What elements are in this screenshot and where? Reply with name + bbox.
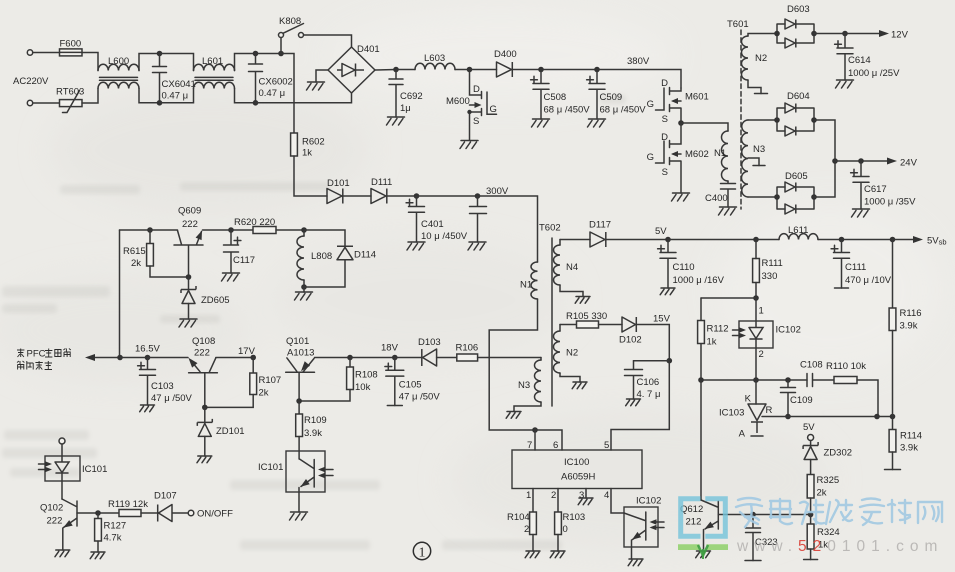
winding N2 T601	[742, 36, 749, 80]
svg-text:M601: M601	[685, 92, 709, 103]
ground at bridge	[307, 82, 325, 90]
capacitor C109	[781, 380, 796, 417]
arrow 24V	[887, 158, 897, 165]
resistor R620	[253, 227, 276, 234]
node C109 bottom	[785, 414, 791, 420]
wire	[756, 379, 788, 381]
optocoupler IC102 LED light arrows	[733, 330, 744, 336]
wire	[303, 287, 305, 292]
wire	[668, 239, 756, 241]
svg-text:C400: C400	[705, 193, 728, 204]
wire	[256, 53, 282, 55]
ground C508	[532, 119, 550, 127]
wire	[541, 69, 597, 71]
wire left rail	[119, 230, 121, 358]
capacitor C508	[533, 70, 549, 120]
wire	[315, 357, 351, 359]
svg-text:D400: D400	[494, 49, 517, 60]
winding N3 T601	[742, 120, 749, 197]
wire	[98, 512, 119, 514]
svg-text:L808: L808	[311, 251, 332, 262]
ground N4	[575, 297, 590, 304]
wire	[160, 89, 194, 103]
winding N2 T602	[554, 331, 561, 373]
svg-text:10 μ /450V: 10 μ /450V	[421, 231, 468, 242]
svg-text:R114: R114	[900, 431, 922, 442]
svg-text:R615: R615	[123, 246, 146, 257]
wire	[557, 535, 559, 552]
svg-text:D102: D102	[619, 335, 642, 346]
wire	[172, 512, 188, 514]
svg-text:Q108: Q108	[192, 336, 215, 347]
ground C401	[407, 242, 425, 250]
svg-text:R110 10k: R110 10k	[826, 361, 866, 372]
core L600	[100, 77, 138, 80]
svg-text:C508: C508	[544, 92, 567, 103]
transistor Q102	[62, 499, 77, 550]
wire	[437, 357, 457, 359]
shunt regulator IC103	[748, 404, 766, 433]
svg-text:CX6041: CX6041	[162, 79, 196, 90]
arrow Q101 emitter	[301, 361, 310, 371]
svg-text:N2: N2	[566, 348, 578, 359]
wire	[298, 437, 300, 460]
resistor R114	[889, 430, 896, 453]
junction C617	[858, 158, 864, 164]
svg-text:RT603: RT603	[56, 87, 84, 98]
node 18V	[392, 355, 398, 361]
wire N4 top	[559, 240, 561, 246]
wire Q612 collector rail	[700, 380, 702, 500]
resistor R109 stub	[298, 401, 300, 414]
resistor R127 stub	[97, 513, 99, 519]
wire	[150, 266, 189, 277]
node R325 R324	[808, 512, 814, 518]
svg-text:R109: R109	[304, 415, 327, 426]
capacitor 300V filter	[470, 196, 487, 242]
svg-text:PFC: PFC	[27, 349, 46, 360]
svg-text:G: G	[647, 99, 654, 110]
resistor R324	[807, 524, 814, 549]
watermark text 家电维修资料网	[736, 498, 942, 527]
ground 300V filter cap	[468, 242, 486, 250]
inductor L601 bottom winding	[194, 82, 235, 88]
capacitor C509	[589, 70, 605, 120]
wire	[61, 481, 63, 499]
svg-text:R602: R602	[302, 137, 325, 148]
wire	[636, 325, 669, 361]
wire	[755, 380, 757, 404]
arrow to PFC chip	[95, 357, 120, 359]
svg-text:1μ: 1μ	[400, 103, 411, 114]
svg-text:C109: C109	[790, 395, 813, 406]
node Q108 base	[202, 405, 208, 411]
ground C692	[387, 117, 405, 125]
wire	[748, 158, 759, 166]
inductor L601 top winding	[194, 64, 235, 70]
zener ZD101	[197, 419, 212, 437]
fuse F600	[60, 49, 83, 56]
svg-text:C110: C110	[673, 262, 695, 273]
svg-text:2k: 2k	[259, 388, 269, 399]
ground R324	[804, 559, 818, 561]
svg-text:R324: R324	[817, 527, 840, 538]
wire 16.5V rail top	[120, 229, 151, 231]
svg-text:3.9k: 3.9k	[304, 428, 322, 439]
node K808	[278, 51, 284, 57]
node Q609 base	[186, 274, 192, 280]
svg-text:D: D	[661, 78, 668, 89]
terminal ON/OFF	[188, 510, 194, 516]
junction D605 right	[811, 194, 817, 200]
node C401	[414, 193, 420, 199]
svg-text:ZD302: ZD302	[824, 448, 853, 459]
transistor Q101	[286, 358, 315, 401]
svg-text:ON/OFF: ON/OFF	[197, 509, 233, 520]
wire	[97, 541, 99, 552]
thermistor RT603	[60, 100, 83, 107]
node C103	[145, 355, 151, 361]
wire	[892, 417, 894, 430]
wire	[470, 69, 497, 71]
svg-text:D: D	[473, 84, 480, 95]
inductor L603	[415, 63, 455, 69]
svg-text:T602: T602	[539, 223, 561, 234]
svg-text:D117: D117	[589, 220, 611, 231]
resistor R602	[291, 133, 298, 156]
wire	[513, 69, 542, 71]
page marker 1	[413, 542, 430, 559]
ground C105	[387, 405, 402, 407]
svg-text:C614: C614	[848, 55, 871, 66]
wire to pin5	[611, 361, 669, 450]
svg-text:IC101: IC101	[258, 462, 283, 473]
svg-text:www.520101.com: www.520101.com	[736, 538, 943, 555]
wire	[304, 230, 345, 246]
wire	[304, 35, 352, 47]
ground ZD101	[197, 456, 212, 463]
wire	[231, 229, 253, 231]
wire	[845, 33, 879, 35]
svg-text:A: A	[739, 429, 746, 440]
svg-text:R106: R106	[456, 343, 479, 354]
svg-text:2: 2	[551, 490, 556, 501]
svg-text:1000 μ /35V: 1000 μ /35V	[864, 197, 916, 208]
zener ZD605	[181, 286, 196, 304]
node C109 top	[785, 377, 791, 383]
resistor R615 body	[147, 244, 154, 267]
svg-text:K: K	[745, 394, 752, 405]
svg-text:D101: D101	[327, 178, 350, 189]
ground C117	[222, 273, 240, 281]
capacitor C110	[660, 240, 676, 289]
node R615 top	[147, 227, 153, 233]
ground IC101 output	[290, 512, 308, 520]
terminal AC neutral	[27, 100, 32, 105]
node R111 bottom	[753, 295, 759, 301]
wire	[204, 436, 206, 456]
svg-text:18V: 18V	[381, 343, 399, 354]
ground R114	[885, 469, 901, 471]
svg-text:3.9k: 3.9k	[900, 443, 918, 454]
node half-bridge midpoint	[678, 120, 684, 126]
transformer T602 core	[551, 238, 553, 406]
ground pin3	[578, 498, 593, 505]
resistor R127 body	[95, 519, 102, 542]
wire	[681, 123, 728, 131]
svg-text:15V: 15V	[653, 314, 671, 325]
svg-text:N1: N1	[520, 280, 532, 291]
wire	[478, 196, 538, 262]
svg-text:L611: L611	[788, 225, 808, 236]
svg-text:222: 222	[194, 348, 210, 359]
ground IC102 output	[628, 559, 643, 566]
junction R110 node	[874, 414, 880, 420]
resistor R112 stubs	[700, 298, 702, 380]
wire	[748, 80, 761, 94]
svg-text:IC102: IC102	[776, 325, 801, 336]
svg-text:D: D	[661, 132, 668, 143]
junction D603 left	[774, 31, 780, 37]
transistor M602	[656, 123, 682, 193]
svg-text:G: G	[647, 152, 654, 163]
ground C110	[660, 288, 675, 295]
label to PFC main supply chip	[17, 349, 24, 358]
svg-text:IC102: IC102	[636, 496, 661, 507]
svg-text:F600: F600	[60, 39, 82, 50]
svg-text:7: 7	[527, 440, 532, 451]
node 300V	[475, 193, 481, 199]
wire	[810, 441, 812, 446]
diode D117	[590, 232, 606, 247]
winding N1 T602	[531, 262, 538, 299]
node 17V	[250, 355, 256, 361]
svg-text:212: 212	[686, 517, 702, 528]
switch K808 lever	[283, 24, 303, 34]
scan ghosts	[2, 95, 626, 550]
resistor R119	[119, 510, 141, 517]
node Q609 emitter	[228, 227, 234, 233]
wire	[835, 160, 887, 162]
wire	[857, 380, 878, 417]
diode pair D603	[777, 24, 814, 43]
bridge rectifier D401	[328, 47, 375, 93]
svg-text:5V: 5V	[803, 422, 815, 433]
zener ZD302	[803, 442, 818, 460]
ground Q102	[55, 550, 70, 557]
ground IC103 anode	[751, 435, 763, 437]
wire	[893, 239, 914, 241]
wire	[139, 89, 160, 103]
optocoupler IC102 LED	[749, 321, 763, 348]
ground C614	[836, 80, 854, 88]
wire	[810, 498, 812, 515]
terminal 5V	[808, 435, 814, 441]
svg-text:16.5V: 16.5V	[135, 344, 160, 355]
svg-text:R105 330: R105 330	[566, 311, 607, 322]
winding N1 T601	[722, 131, 728, 181]
svg-text:1: 1	[526, 490, 531, 501]
wire N3 top	[540, 358, 542, 361]
wire	[599, 324, 623, 326]
capacitor C106	[625, 361, 643, 399]
svg-text:D111: D111	[371, 177, 392, 188]
wire	[560, 239, 590, 241]
capacitor C117	[224, 230, 239, 273]
svg-text:47 μ /50V: 47 μ /50V	[151, 393, 193, 404]
terminal AC live	[27, 50, 32, 55]
node M600 drain	[467, 67, 473, 73]
wire	[810, 549, 812, 560]
svg-text:470 μ /10V: 470 μ /10V	[845, 275, 892, 286]
svg-text:D103: D103	[418, 337, 441, 348]
svg-text:1000 μ /25V: 1000 μ /25V	[848, 68, 900, 79]
ground C111	[835, 287, 849, 289]
svg-text:5: 5	[604, 440, 609, 451]
capacitor CX6002	[249, 54, 263, 103]
svg-text:L603: L603	[424, 53, 445, 64]
svg-text:R116: R116	[900, 308, 922, 319]
wire	[756, 239, 779, 241]
svg-text:AC220V: AC220V	[13, 76, 49, 87]
wire	[276, 229, 304, 231]
bridge D401 inner diode	[337, 64, 364, 77]
svg-text:N3: N3	[753, 144, 765, 155]
ground R127	[90, 552, 105, 559]
diode D111	[371, 189, 387, 204]
node CX6002 top	[253, 51, 259, 57]
svg-text:R: R	[766, 405, 773, 416]
svg-text:C103: C103	[151, 381, 174, 392]
svg-text:Q609: Q609	[178, 206, 201, 217]
winding N3 T602	[535, 360, 542, 402]
wire	[755, 348, 757, 380]
svg-text:4: 4	[604, 490, 609, 501]
svg-text:1k: 1k	[302, 148, 312, 159]
svg-text:IC101: IC101	[82, 464, 107, 475]
svg-text:6: 6	[553, 440, 558, 451]
watermark logo frame	[681, 499, 726, 537]
svg-text:68 μ /450V: 68 μ /450V	[544, 105, 591, 116]
svg-text:10k: 10k	[355, 382, 371, 393]
wire	[139, 54, 160, 71]
svg-text:D114: D114	[354, 250, 376, 261]
svg-text:C106: C106	[637, 377, 660, 388]
capacitor C617	[853, 161, 869, 209]
arrow 5Vsb	[913, 236, 923, 243]
wire R111 stubs	[755, 240, 757, 299]
resistor R103	[555, 512, 562, 535]
node L808 bottom	[301, 284, 307, 290]
node L808	[301, 227, 307, 233]
svg-text:2: 2	[759, 349, 764, 360]
IC U100 box	[512, 450, 642, 489]
node 15V C106	[667, 358, 673, 364]
wire N2 bottom	[560, 373, 580, 382]
resistor R107 stub	[252, 358, 254, 374]
svg-text:C401: C401	[421, 219, 444, 230]
junction M600 source	[467, 110, 471, 114]
svg-text:R104: R104	[507, 512, 530, 523]
ground Q612	[696, 551, 711, 558]
wire	[606, 239, 668, 241]
transistor Q609	[174, 231, 203, 278]
wire	[810, 460, 812, 475]
node CX6002 bottom	[253, 100, 259, 106]
optocoupler IC102 light arrows	[653, 522, 665, 528]
ground R104	[525, 551, 540, 558]
optocoupler IC101 light arrows	[321, 470, 333, 476]
resistor R325	[807, 475, 814, 499]
svg-text:2: 2	[524, 524, 529, 535]
svg-text:ZD605: ZD605	[201, 295, 230, 306]
svg-text:380V: 380V	[627, 56, 650, 67]
svg-text:C509: C509	[600, 92, 623, 103]
junction pin7	[532, 427, 538, 433]
svg-text:C692: C692	[400, 91, 423, 102]
node IC102 pin2	[753, 377, 759, 383]
junction left rail	[117, 355, 123, 361]
wire 5Vsb down	[892, 240, 894, 309]
svg-text:C117: C117	[233, 255, 255, 266]
ground N3 tap	[753, 165, 765, 167]
node CX6041 top	[157, 51, 163, 57]
svg-text:1000 μ /16V: 1000 μ /16V	[673, 275, 725, 286]
capacitor C323	[746, 515, 761, 561]
wire N2 top	[559, 325, 561, 332]
wire	[892, 452, 894, 470]
diode D102	[622, 317, 636, 332]
svg-text:68 μ /450V: 68 μ /450V	[600, 105, 647, 116]
svg-text:D401: D401	[357, 44, 380, 55]
capacitor CX6041	[153, 54, 167, 103]
wire	[203, 229, 232, 231]
svg-text:3.9k: 3.9k	[900, 321, 918, 332]
resistor R108 body	[347, 367, 354, 390]
capacitor C692	[389, 70, 403, 118]
node C323	[750, 512, 756, 518]
wire	[281, 54, 294, 134]
node C111	[839, 237, 845, 243]
svg-text:0: 0	[563, 524, 568, 535]
ground C509	[588, 119, 606, 127]
wire L808 top	[303, 230, 305, 236]
diode pair D605	[777, 187, 814, 209]
wire	[842, 239, 893, 241]
wire N3 bottom	[514, 402, 541, 412]
wire pin4	[611, 489, 624, 514]
svg-text:330: 330	[762, 271, 778, 282]
svg-text:0.47 μ: 0.47 μ	[162, 91, 189, 102]
svg-text:4.7k: 4.7k	[104, 533, 122, 544]
ground M602	[672, 193, 690, 201]
svg-text:M600: M600	[446, 96, 470, 107]
svg-text:2k: 2k	[817, 488, 827, 499]
svg-text:D605: D605	[785, 171, 808, 182]
capacitor C401	[409, 196, 425, 242]
wire	[256, 93, 352, 103]
svg-text:D107: D107	[154, 491, 177, 502]
ground C323	[745, 560, 761, 562]
wire	[235, 54, 256, 71]
node Q101 base	[296, 398, 302, 404]
svg-text:IC103: IC103	[719, 408, 744, 419]
wire	[280, 38, 282, 54]
diode D101	[327, 189, 343, 204]
svg-text:K808: K808	[279, 16, 301, 27]
switch K808 throw	[299, 33, 304, 38]
svg-text:S: S	[473, 116, 479, 127]
